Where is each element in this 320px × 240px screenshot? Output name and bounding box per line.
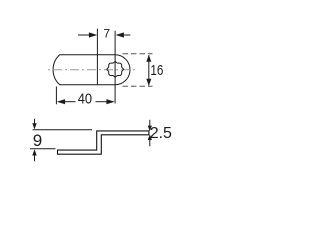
dim 16 line [148, 55, 150, 85]
dim 16 extension dashes [123, 53, 153, 55]
arrowhead dim7 right (points left) [116, 32, 124, 37]
arrowhead dim9 down [32, 123, 36, 129]
arrowhead dim16 up [146, 55, 151, 62]
arrowhead dim2.5 up [148, 134, 152, 140]
side view Z profile [58, 131, 149, 154]
arrowhead dim7 left (points right) [89, 32, 97, 37]
dim 7 tails [78, 34, 90, 36]
dim 9 arrow tails [34, 119, 36, 125]
svg-text:2.5: 2.5 [150, 125, 172, 142]
svg-text:16: 16 [150, 62, 163, 79]
dim 40 extension + tails [55, 87, 57, 105]
svg-text:9: 9 [33, 131, 42, 150]
centre line (dashed grey) [48, 69, 135, 71]
dim 9 extension lines [33, 129, 92, 131]
arrowhead dim40 right (points right) [106, 99, 114, 104]
bend line [96, 29, 98, 85]
arrowhead dim9 up [32, 149, 36, 155]
arrowhead dim2.5 down [148, 126, 152, 132]
dim 2.5 arrow tails [149, 120, 151, 127]
hole centre vertical line [114, 31, 116, 104]
svg-text:40: 40 [78, 91, 92, 108]
arrowhead dim16 down [146, 79, 151, 86]
star hole [107, 62, 124, 78]
lug body outline (top view) [53, 55, 130, 85]
svg-text:7: 7 [103, 27, 110, 41]
arrowhead dim40 left (points left) [57, 99, 65, 104]
